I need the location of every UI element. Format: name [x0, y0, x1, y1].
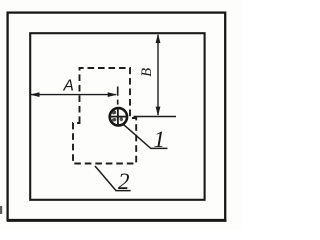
vertical centerline above hole [117, 87, 119, 105]
svg-text:B: B [139, 68, 155, 77]
svg-text:2: 2 [118, 169, 130, 194]
arrowhead A left [30, 92, 40, 97]
arrowhead B top [156, 34, 161, 43]
svg-text:1: 1 [154, 127, 166, 152]
scan smudge left edge [0, 206, 2, 214]
leader line for 1 [124, 125, 168, 149]
outer frame bottom edge (thicker) [7, 219, 227, 222]
dimension line B [157, 35, 159, 115]
dimension line A [31, 94, 116, 96]
crosshair vertical inside hole [117, 109, 119, 125]
svg-text:A: A [63, 78, 74, 95]
arrowhead A right [108, 92, 118, 97]
crosshair horizontal inside hole [111, 116, 127, 118]
dashed outline 2 (stepped part contour) [73, 68, 136, 164]
horizontal centerline right of hole [134, 116, 177, 118]
hole circle [110, 108, 127, 125]
leader line for 2 [95, 166, 131, 191]
inner frame [30, 33, 204, 200]
scan smudges inside hole [112, 110, 116, 114]
arrowhead B bottom [156, 107, 161, 116]
outer frame [8, 13, 226, 221]
